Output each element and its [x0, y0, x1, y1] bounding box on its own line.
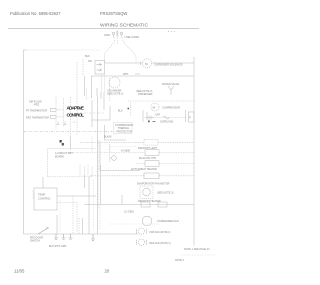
freezer fan motor — [137, 228, 171, 234]
wire compressor feed row — [128, 100, 194, 102]
svg-text:MULLION HTR: MULLION HTR — [139, 157, 156, 160]
anti-sweat heater — [131, 161, 159, 171]
wire temp control right lower — [57, 203, 77, 233]
wires thermistors to ADC — [56, 96, 64, 130]
mullion heater — [139, 150, 159, 160]
svg-text:FRZ THERMISTOR: FRZ THERMISTOR — [26, 116, 49, 120]
defrost heater element — [141, 202, 167, 207]
svg-text:(SEE NOTE 3): (SEE NOTE 3) — [157, 192, 174, 195]
label auger motor — [155, 63, 183, 66]
footer page number — [105, 269, 110, 274]
ADC input label air flow — [29, 100, 42, 107]
svg-text:SWITCH: SWITCH — [30, 240, 40, 243]
wire keyboard verticals — [71, 136, 93, 152]
dispenser switch — [88, 60, 105, 74]
wire temp control top — [42, 177, 44, 188]
svg-text:FF THERMISTOR: FF THERMISTOR — [26, 109, 47, 113]
label wire colors bottom — [49, 245, 67, 248]
drain heater — [144, 173, 159, 179]
adaptive defrost control U1 — [67, 106, 85, 118]
wire drop to switch — [84, 76, 86, 96]
svg-text:DISPENSER: DISPENSER — [138, 93, 153, 96]
defrost limit thermostat — [138, 140, 158, 151]
svg-text:NOTE 1 SEE PAGE 21: NOTE 1 SEE PAGE 21 — [184, 248, 210, 251]
line cord plug — [112, 31, 122, 38]
temperature control box — [33, 188, 58, 210]
wire temp control right upper — [57, 196, 96, 233]
svg-text:CAP: CAP — [155, 114, 160, 117]
svg-text:FRZ: FRZ — [34, 103, 39, 107]
svg-text:TEMP: TEMP — [38, 193, 45, 197]
wire fans feed — [109, 223, 160, 225]
wire ladder row anti-sweat — [136, 163, 194, 165]
svg-text:P: P — [189, 117, 191, 120]
wire neutral to right rail — [134, 52, 137, 63]
svg-text:COMPRESSOR: COMPRESSOR — [162, 107, 180, 110]
start relay and feed wires — [110, 78, 156, 162]
svg-text:SW: SW — [88, 60, 93, 63]
svg-text:BLK: BLK — [85, 54, 90, 58]
run capacitor — [146, 114, 160, 120]
svg-text:PROTECTOR: PROTECTOR — [117, 130, 133, 133]
svg-text:LINE CORD: LINE CORD — [125, 35, 140, 39]
svg-text:CONTROL: CONTROL — [38, 197, 51, 201]
FF thermistor symbol — [51, 108, 57, 111]
wire stub row and dispenser note — [135, 74, 153, 96]
legend note bottom right — [175, 248, 216, 262]
svg-text:HI SIDE: HI SIDE — [121, 150, 130, 153]
label line cord — [125, 35, 140, 39]
svg-text:ADAPTIVE: ADAPTIVE — [67, 106, 85, 111]
PTC starter — [189, 112, 195, 122]
label BLK — [85, 54, 90, 58]
wire auger motor row — [105, 62, 194, 64]
water valve — [162, 83, 179, 95]
header rule — [8, 28, 199, 30]
ground bus — [24, 233, 139, 235]
svg-text:BLK/W: BLK/W — [104, 136, 112, 139]
ice maker (see note) — [107, 73, 129, 96]
header model number — [100, 11, 127, 16]
label evap fan — [157, 192, 174, 195]
svg-text:FRZ FAN (NOTE 1): FRZ FAN (NOTE 1) — [150, 231, 171, 234]
footer date — [14, 269, 25, 274]
label hi side — [121, 150, 130, 153]
compressor circuit bracket — [143, 110, 186, 122]
svg-text:BOARD: BOARD — [55, 156, 64, 159]
wire dashed drop left of switch — [71, 59, 84, 136]
label wire colors at plug — [104, 33, 110, 37]
svg-text:WIRING SCHEMATIC: WIRING SCHEMATIC — [100, 22, 148, 28]
keyboard connector — [60, 140, 64, 146]
title WIRING SCHEMATIC — [100, 22, 148, 28]
wire hot lead to left rail — [24, 50, 105, 63]
svg-text:BLK WHT GRN: BLK WHT GRN — [49, 245, 67, 248]
svg-text:WHT: WHT — [123, 73, 129, 76]
svg-text:FRS26TS6QW: FRS26TS6QW — [100, 11, 127, 16]
svg-text:NOTE 2: NOTE 2 — [175, 259, 185, 262]
node junction at compressor feed — [118, 102, 131, 116]
FRZ thermistor symbol — [51, 115, 57, 118]
svg-text:ANTI-SWEAT HEATER: ANTI-SWEAT HEATER — [131, 168, 157, 171]
svg-text:GRN: GRN — [104, 33, 110, 37]
condenser fan motor — [142, 216, 152, 226]
compressor motor M1 — [151, 103, 180, 111]
cabinet ground symbols — [54, 234, 95, 241]
header publication number — [10, 11, 61, 16]
defrost thermostat — [110, 156, 116, 161]
svg-text:Publication No. 5995-53627: Publication No. 5995-53627 — [10, 11, 61, 16]
door switch on bus — [30, 227, 48, 243]
evaporator fan motor — [140, 186, 153, 199]
svg-text:20: 20 — [105, 269, 110, 274]
evaporator fan caption — [137, 183, 170, 186]
defrost heater caption — [138, 200, 161, 203]
ADC input label FRZ thermistor — [26, 116, 49, 120]
svg-text:BLK: BLK — [118, 110, 123, 113]
ADC input label FF thermistor — [26, 109, 47, 113]
svg-text:DEFROST HEATER: DEFROST HEATER — [138, 200, 161, 203]
wire ladder row drain heater — [90, 175, 194, 177]
overload protector — [160, 116, 174, 124]
wire plug leads down — [105, 38, 134, 54]
svg-text:OVERLOAD: OVERLOAD — [160, 121, 174, 124]
wire defrost heater row — [84, 204, 194, 206]
right rail (neutral bus) — [193, 57, 195, 246]
wire water valve row — [92, 76, 195, 98]
condenser fan caption — [157, 220, 179, 223]
compressor label block — [114, 123, 134, 134]
rule end dots — [168, 31, 175, 32]
svg-text:CONDENSER FAN: CONDENSER FAN — [157, 220, 179, 223]
svg-text:WATER VALVE: WATER VALVE — [162, 83, 179, 86]
wire ladder row mullion heater — [68, 152, 194, 154]
ADC pin footer marks — [57, 121, 75, 125]
label lo side — [124, 211, 134, 214]
wire center riser — [99, 63, 141, 210]
wire ladder row defrost limit — [80, 141, 194, 143]
dispenser enclosure — [48, 148, 97, 176]
vertical drops center — [57, 96, 122, 234]
ADC connector pins — [24, 88, 126, 140]
svg-text:LO SIDE: LO SIDE — [124, 211, 134, 214]
left rail (hot bus) — [24, 50, 28, 234]
svg-text:DISPENSER SOLENOID: DISPENSER SOLENOID — [155, 63, 183, 66]
svg-text:EVAPORATOR FAN MOTOR: EVAPORATOR FAN MOTOR — [137, 183, 170, 186]
svg-text:REF FAN (NOTE 2): REF FAN (NOTE 2) — [150, 242, 171, 245]
svg-text:11/05: 11/05 — [14, 269, 25, 274]
refrigerator fan motor — [137, 239, 171, 245]
auger motor — [141, 59, 152, 68]
